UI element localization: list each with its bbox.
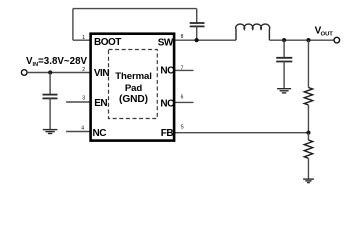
svg-text:5: 5 <box>181 125 184 131</box>
node output cap junction <box>282 38 286 42</box>
svg-text:1: 1 <box>82 35 85 41</box>
svg-text:(GND): (GND) <box>119 94 148 105</box>
svg-text:NC: NC <box>160 65 174 76</box>
svg-text:OUT: OUT <box>321 32 334 38</box>
wire pin 7 NC stub <box>175 69 194 71</box>
svg-text:NC: NC <box>93 128 107 139</box>
capacitor C_OUT <box>276 58 292 62</box>
svg-text:VIN: VIN <box>94 68 109 79</box>
svg-text:NC: NC <box>160 98 174 109</box>
ground (feedback divider) <box>303 179 314 183</box>
svg-text:Thermal: Thermal <box>115 71 152 82</box>
svg-text:Pad: Pad <box>125 83 143 94</box>
svg-text:2: 2 <box>82 67 85 73</box>
svg-text:BOOT: BOOT <box>94 37 121 48</box>
svg-text:EN: EN <box>94 98 107 109</box>
ground (input capacitor) <box>43 130 58 134</box>
inductor L1 <box>236 24 270 40</box>
wire output cap to ground <box>283 62 285 89</box>
svg-text:7: 7 <box>181 65 184 71</box>
wire divider upper vertical <box>307 40 309 87</box>
svg-text:SW: SW <box>158 37 174 48</box>
wire input cap vertical <box>49 73 51 95</box>
svg-text:FB: FB <box>161 128 174 139</box>
wire FB node to R2 <box>307 133 309 140</box>
wire R1 to FB node <box>307 105 309 133</box>
node SW/bootcap junction <box>195 38 199 42</box>
resistor R1 (upper feedback) <box>304 88 312 106</box>
svg-text:6: 6 <box>181 95 184 101</box>
output terminal circle <box>334 37 340 43</box>
node feedback divider junction on rail <box>306 38 310 42</box>
wire boot cap lower vertical <box>196 26 198 40</box>
wire BOOT top loop horizontal <box>73 8 197 10</box>
wire FB from pin 5 <box>175 132 309 134</box>
ground (output capacitor) <box>277 89 291 93</box>
resistor R2 (lower feedback) <box>304 140 312 158</box>
node FB junction <box>306 131 310 135</box>
thermal pad dashed outline <box>109 50 158 119</box>
wire output cap vertical <box>283 40 285 58</box>
wire VIN to pin 2 <box>27 72 91 74</box>
IC U1 body <box>91 34 175 141</box>
svg-text:3: 3 <box>82 96 85 102</box>
wire pin 6 NC stub <box>175 101 194 103</box>
wire SW to inductor <box>175 39 237 41</box>
wire pin 3 EN stub <box>66 101 90 103</box>
wire pin1 BOOT stub <box>73 39 91 41</box>
svg-text:8: 8 <box>181 34 184 40</box>
wire BOOT loop left vertical <box>72 9 74 41</box>
capacitor C_IN <box>43 95 58 99</box>
input terminal circle <box>21 70 27 76</box>
svg-text:4: 4 <box>81 125 84 131</box>
wire boot cap upper vertical <box>196 9 198 23</box>
node input cap junction <box>48 70 52 74</box>
wire R2 to ground <box>307 158 309 179</box>
wire input cap to ground <box>49 98 51 129</box>
wire pin 4 NC stub <box>66 131 90 133</box>
wire output rail <box>269 39 334 41</box>
capacitor C_BOOT (bootstrap) <box>190 23 205 26</box>
